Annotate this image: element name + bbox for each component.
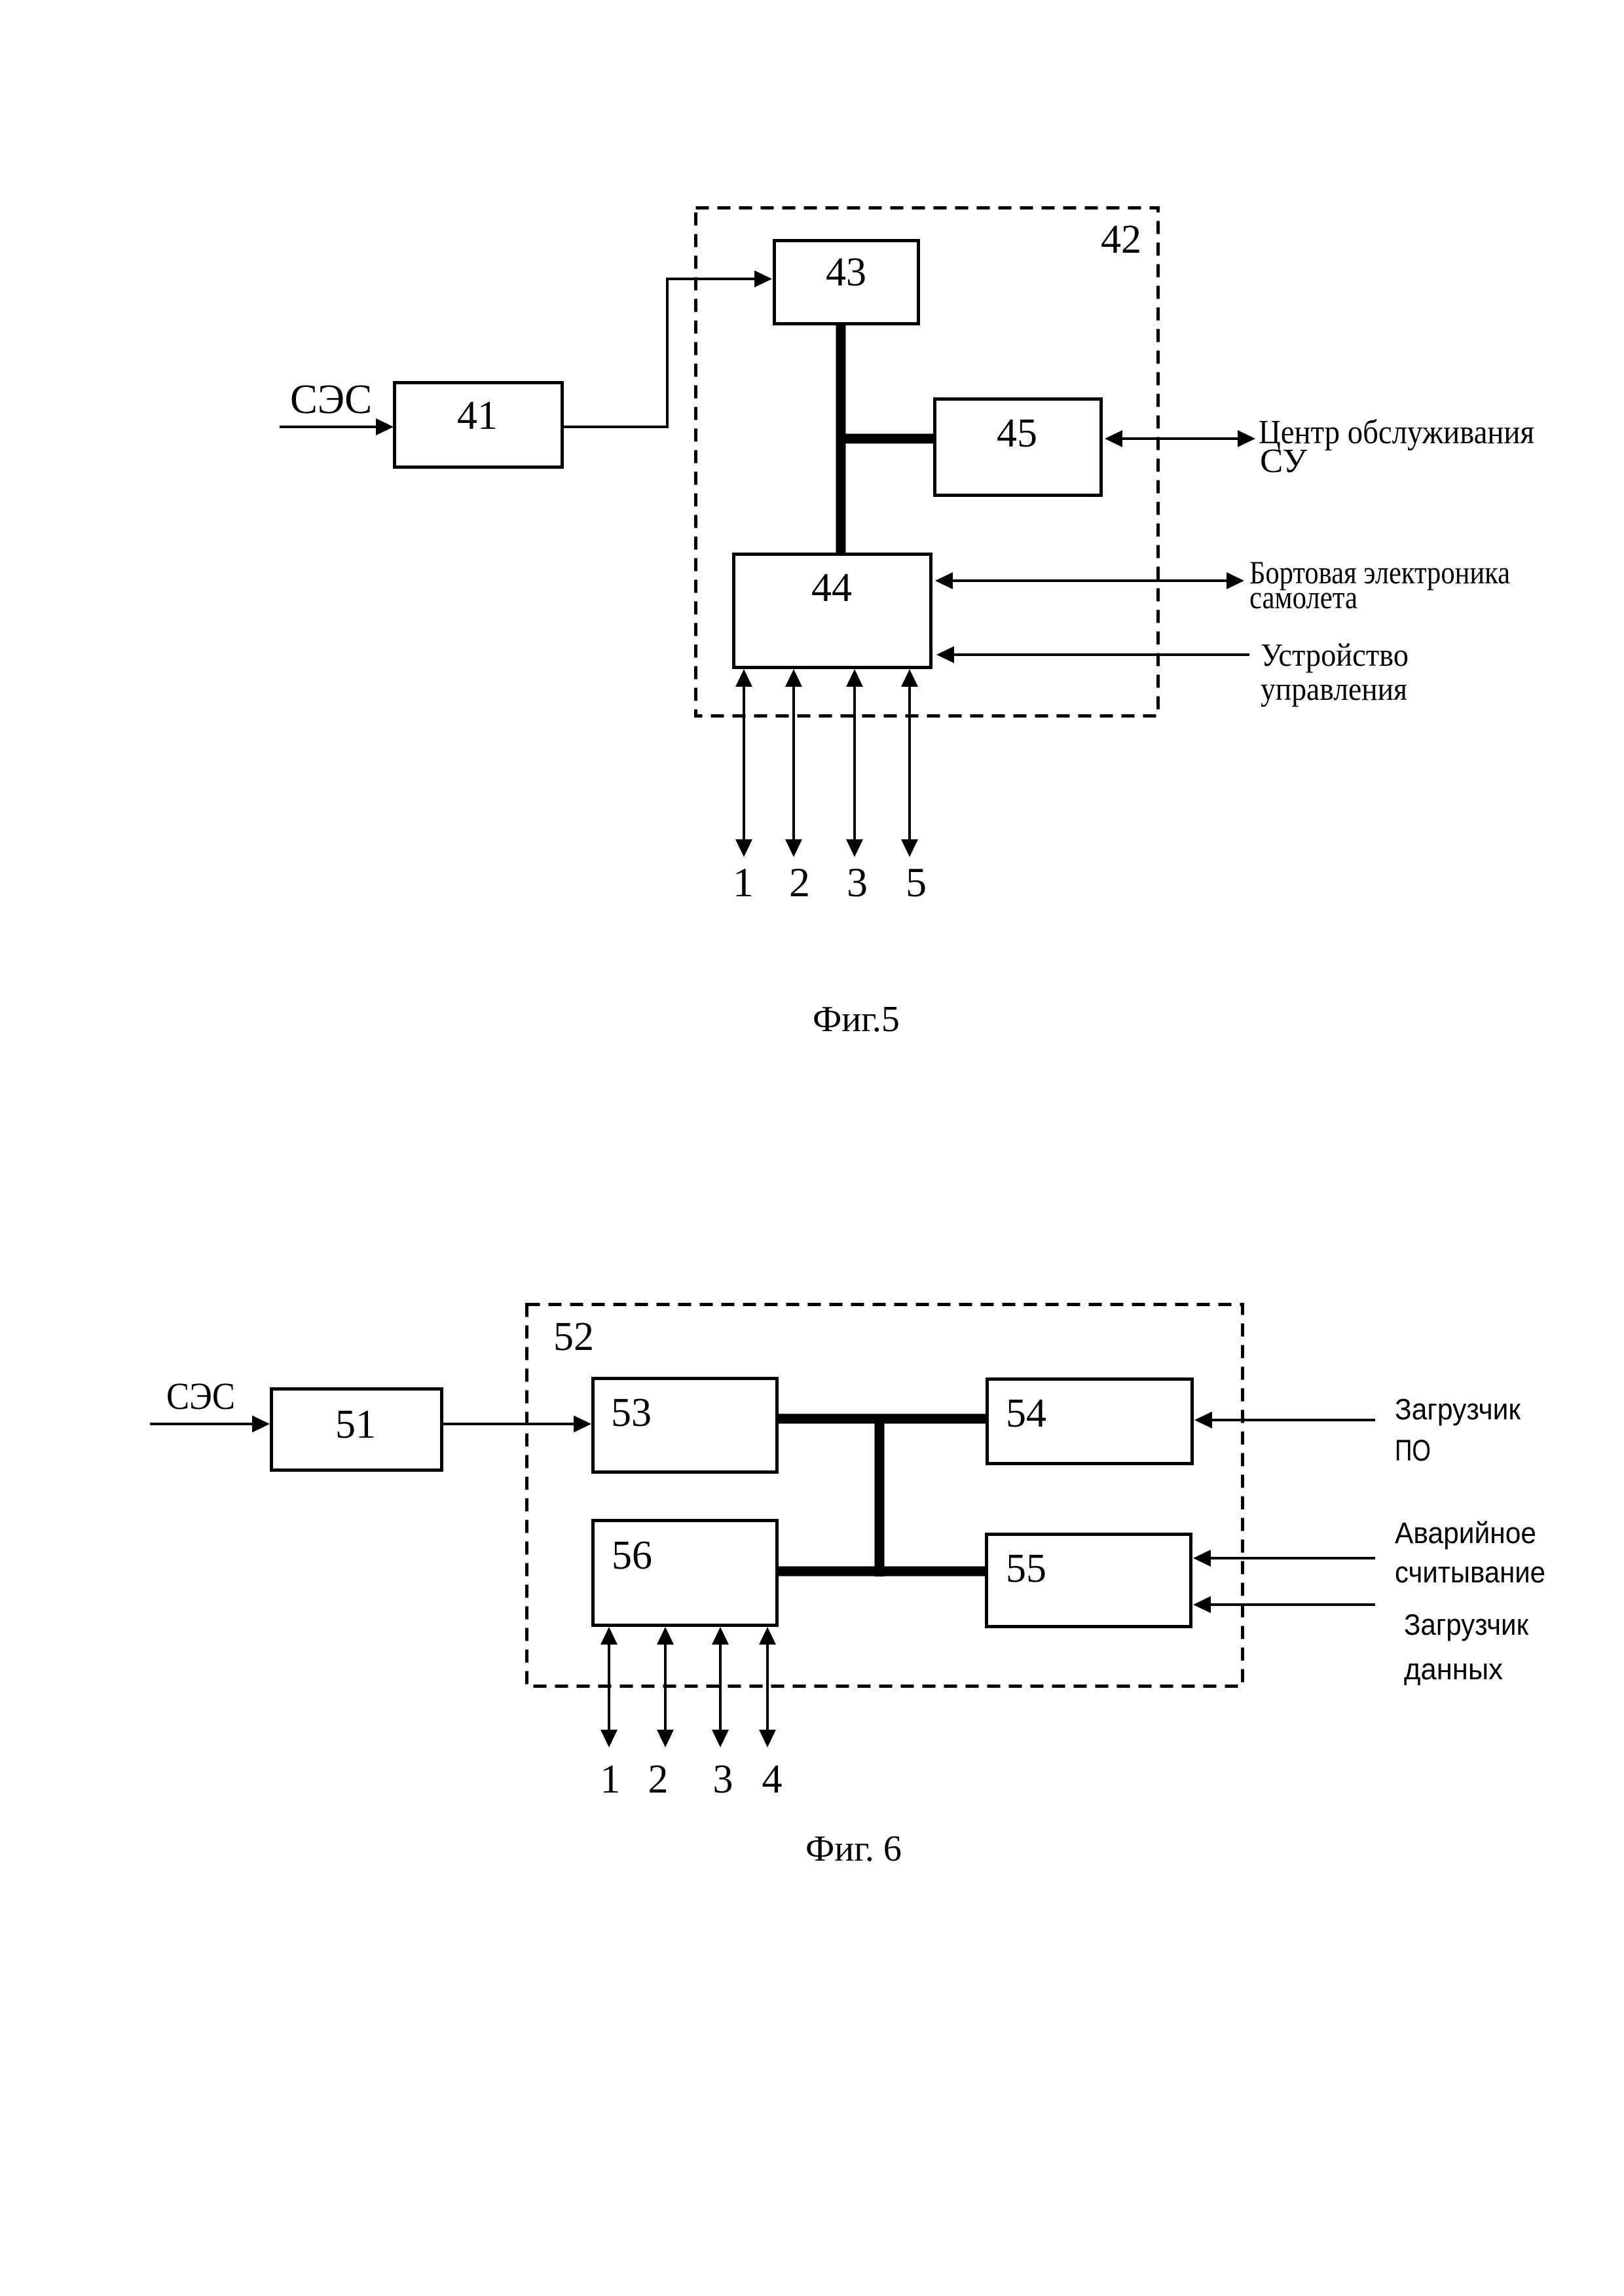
label Загрузчик данных — [1404, 1608, 1528, 1686]
thick bus block 53 → block 54 — [779, 1414, 986, 1424]
svg-text:3: 3 — [713, 1757, 733, 1802]
svg-text:43: 43 — [826, 250, 866, 295]
block 56 — [593, 1521, 777, 1626]
arrow Устройство управления → block 44 — [936, 646, 1249, 663]
svg-text:51: 51 — [335, 1402, 376, 1447]
svg-text:53: 53 — [611, 1391, 652, 1435]
arrowhead into block 41 — [376, 418, 394, 435]
block 51 — [272, 1389, 442, 1470]
bidirectional port arrow 1 (fig.5) — [735, 669, 752, 857]
svg-text:54: 54 — [1006, 1391, 1046, 1436]
svg-text:2: 2 — [648, 1757, 669, 1802]
bidirectional port arrow 5 (fig.5) — [901, 669, 918, 857]
bidirectional arrow block 44 ↔ Бортовая электроника самолета — [935, 572, 1244, 589]
label Загрузчик ПО — [1395, 1393, 1521, 1467]
thick bus block 56 → block 55 — [779, 1567, 985, 1576]
wire block 51 → block 53 — [443, 1423, 574, 1425]
arrowhead into block 43 — [754, 270, 772, 287]
svg-text:3: 3 — [847, 859, 868, 905]
arrowhead into block 53 — [574, 1415, 591, 1432]
svg-text:56: 56 — [612, 1533, 652, 1578]
svg-text:1: 1 — [600, 1757, 621, 1802]
wire СЭС input → block 51 — [150, 1423, 252, 1425]
bidirectional arrow block 45 ↔ Центр обслуживания СУ — [1105, 430, 1255, 447]
block 41 — [395, 383, 563, 467]
svg-text:СЭС: СЭС — [166, 1375, 235, 1417]
bidirectional port arrow 3 (fig.6) — [712, 1627, 729, 1747]
thick bus: block 43 ↓ block 44 — [836, 325, 846, 554]
svg-text:Загрузчик: Загрузчик — [1395, 1393, 1521, 1426]
block 53 — [593, 1379, 777, 1472]
svg-text:данных: данных — [1404, 1652, 1503, 1686]
svg-text:СЭС: СЭС — [290, 376, 372, 422]
svg-text:5: 5 — [906, 859, 927, 905]
block 44 — [734, 555, 931, 668]
svg-text:42: 42 — [1101, 217, 1141, 262]
thick bus branch → block 45 — [836, 434, 933, 444]
svg-text:считывание: считывание — [1395, 1556, 1545, 1589]
dashed enclosure 52 — [527, 1305, 1243, 1686]
arrow Загрузчик данных → block 55 — [1193, 1596, 1375, 1613]
arrow Аварийное считывание → block 55 — [1193, 1550, 1375, 1567]
svg-text:1: 1 — [733, 859, 754, 905]
block 43 — [775, 241, 919, 324]
bidirectional port arrow 2 (fig.5) — [785, 669, 802, 857]
arrow Загрузчик ПО → block 54 — [1194, 1412, 1375, 1429]
svg-text:Фиг. 6: Фиг. 6 — [805, 1829, 902, 1869]
thick bus vertical link — [875, 1414, 885, 1576]
svg-text:41: 41 — [457, 393, 498, 438]
wire СЭС input → block 41 — [280, 426, 376, 428]
wire block 41 → block 43 (stepped) — [564, 279, 754, 427]
svg-text:Аварийное: Аварийное — [1395, 1516, 1536, 1550]
svg-text:ПО: ПО — [1395, 1434, 1431, 1467]
label Аварийное считывание — [1395, 1516, 1545, 1589]
arrowhead into block 51 — [252, 1415, 270, 1432]
svg-text:Загрузчик: Загрузчик — [1404, 1608, 1528, 1641]
svg-text:СУ: СУ — [1260, 443, 1307, 480]
svg-text:управления: управления — [1261, 670, 1407, 707]
svg-text:45: 45 — [997, 411, 1037, 456]
bidirectional port arrow 4 (fig.6) — [759, 1627, 776, 1747]
port labels 1 2 3 4 — [600, 1757, 783, 1802]
svg-text:52: 52 — [553, 1315, 594, 1359]
block 45 — [935, 399, 1101, 496]
svg-text:44: 44 — [811, 566, 852, 610]
label Бортовая электроника самолета — [1249, 554, 1510, 615]
svg-text:Фиг.5: Фиг.5 — [813, 999, 900, 1040]
dashed enclosure 42 — [696, 208, 1158, 716]
svg-text:4: 4 — [762, 1757, 783, 1802]
bidirectional port arrow 3 (fig.5) — [846, 669, 863, 857]
port labels 1 2 3 5 — [733, 859, 927, 905]
bidirectional port arrow 2 (fig.6) — [657, 1627, 674, 1747]
svg-text:55: 55 — [1006, 1546, 1046, 1591]
label Центр обслуживания СУ — [1259, 414, 1534, 480]
bidirectional port arrow 1 (fig.6) — [600, 1627, 618, 1747]
block 54 — [987, 1379, 1192, 1464]
svg-text:2: 2 — [789, 859, 810, 905]
label Устройство управления — [1261, 636, 1409, 707]
svg-text:Устройство: Устройство — [1261, 636, 1409, 673]
svg-text:самолета: самолета — [1249, 579, 1357, 615]
block 55 — [987, 1535, 1191, 1627]
